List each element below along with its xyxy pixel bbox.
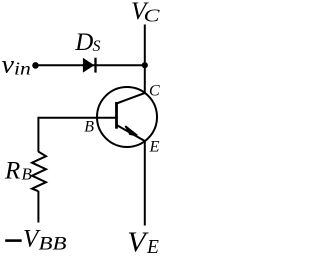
- svg-text:E: E: [146, 237, 159, 256]
- svg-text:D: D: [74, 29, 93, 56]
- svg-text:B: B: [84, 118, 94, 135]
- svg-text:v: v: [2, 52, 16, 79]
- svg-text:in: in: [14, 59, 31, 79]
- svg-text:R: R: [4, 158, 20, 185]
- svg-text:BB: BB: [39, 234, 67, 255]
- svg-text:C: C: [144, 5, 161, 25]
- svg-text:E: E: [148, 139, 159, 156]
- svg-text:C: C: [149, 83, 160, 100]
- svg-text:S: S: [93, 38, 101, 55]
- svg-text:B: B: [22, 165, 33, 184]
